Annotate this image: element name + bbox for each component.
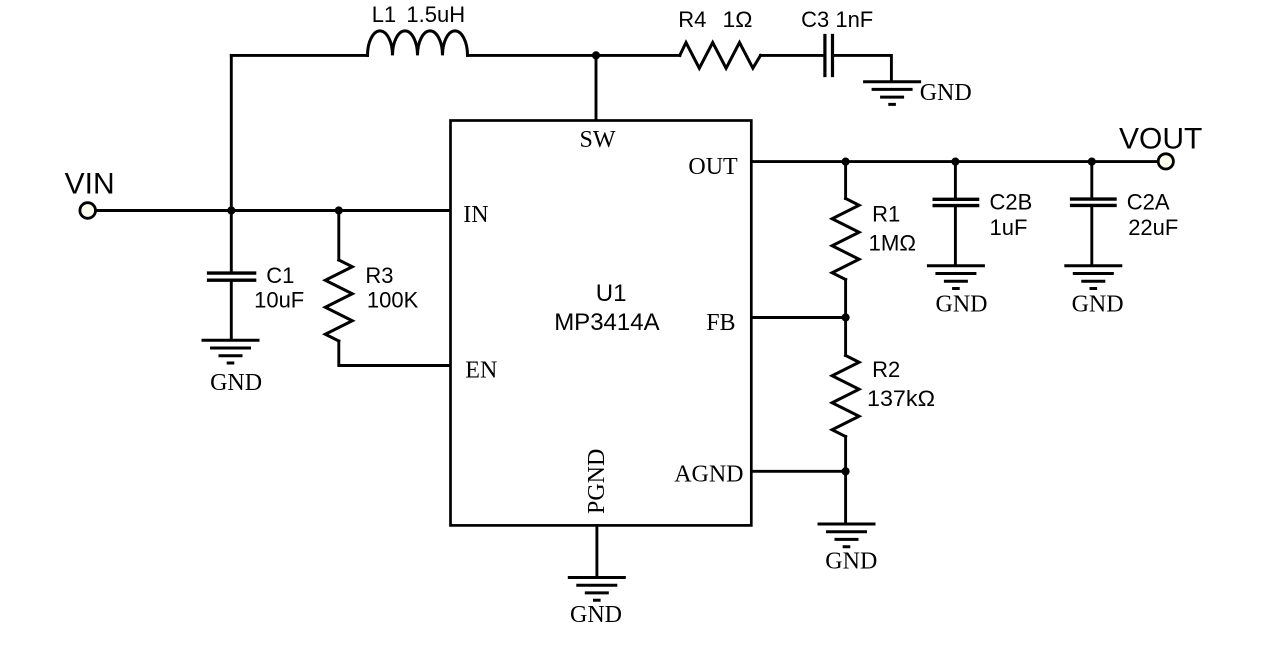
svg-text:C2A: C2A (1127, 190, 1170, 215)
svg-text:C3 1nF: C3 1nF (801, 7, 873, 32)
svg-text:R2: R2 (872, 357, 900, 382)
svg-text:C2B: C2B (990, 190, 1033, 215)
svg-text:GND: GND (825, 549, 877, 575)
svg-text:C1: C1 (266, 263, 294, 288)
svg-text:1MΩ: 1MΩ (869, 231, 917, 256)
svg-text:GND: GND (570, 602, 622, 628)
svg-text:100K: 100K (367, 287, 419, 312)
svg-text:FB: FB (706, 310, 735, 336)
svg-text:IN: IN (463, 202, 488, 228)
svg-text:U1: U1 (596, 280, 627, 307)
svg-text:10uF: 10uF (254, 287, 304, 312)
svg-text:1Ω: 1Ω (723, 7, 753, 32)
svg-text:1.5uH: 1.5uH (406, 2, 465, 27)
svg-text:VOUT: VOUT (1119, 123, 1202, 156)
svg-text:L1: L1 (372, 2, 396, 27)
svg-text:VIN: VIN (65, 167, 115, 200)
svg-text:MP3414A: MP3414A (554, 309, 659, 336)
svg-text:GND: GND (936, 292, 988, 318)
svg-text:EN: EN (465, 357, 497, 383)
svg-text:AGND: AGND (674, 461, 743, 487)
svg-text:137kΩ: 137kΩ (867, 386, 935, 411)
svg-text:R1: R1 (872, 202, 900, 227)
svg-text:1uF: 1uF (990, 215, 1028, 240)
svg-text:GND: GND (920, 80, 972, 106)
svg-text:GND: GND (210, 370, 262, 396)
svg-text:22uF: 22uF (1128, 215, 1178, 240)
svg-text:PGND: PGND (584, 449, 610, 514)
svg-text:GND: GND (1072, 292, 1124, 318)
svg-text:R4: R4 (678, 7, 706, 32)
svg-text:R3: R3 (365, 263, 393, 288)
svg-text:SW: SW (580, 127, 616, 153)
svg-text:OUT: OUT (688, 154, 738, 180)
